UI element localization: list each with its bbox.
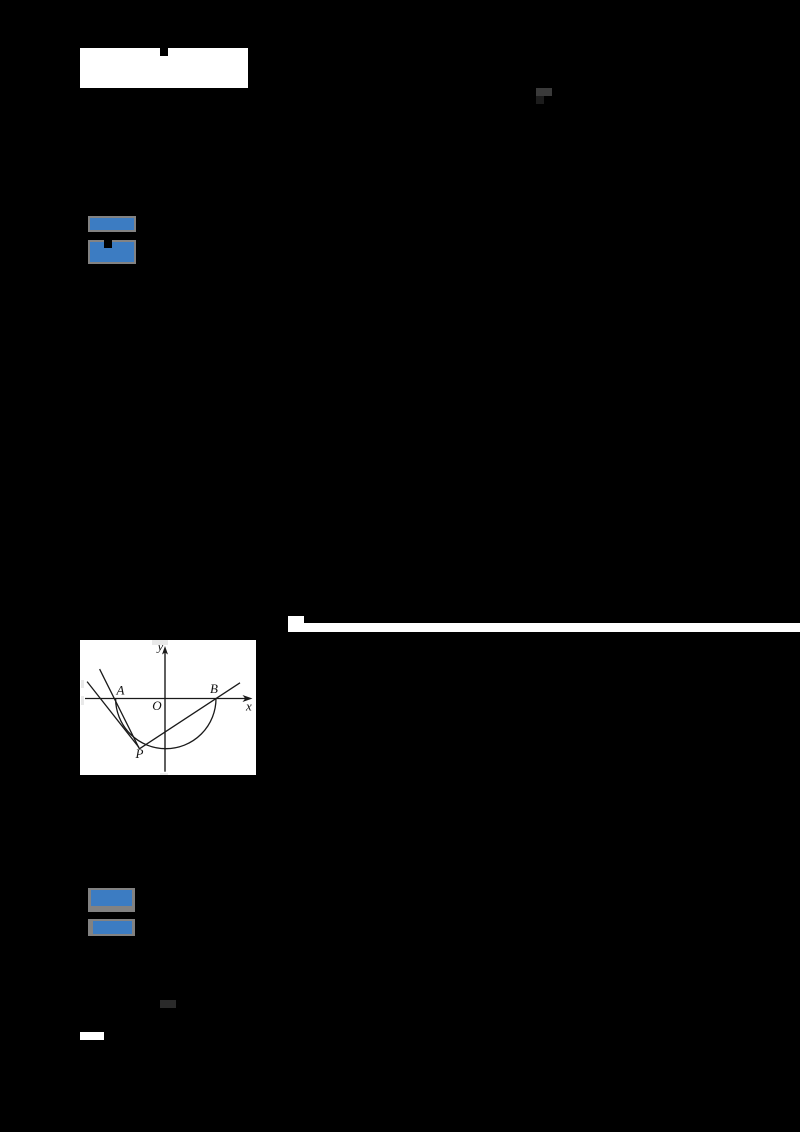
svg-text:P: P (135, 746, 144, 761)
svg-text:O: O (152, 698, 162, 713)
svg-text:A: A (116, 683, 125, 698)
svg-text:B: B (210, 681, 218, 696)
svg-text:x: x (245, 699, 252, 714)
